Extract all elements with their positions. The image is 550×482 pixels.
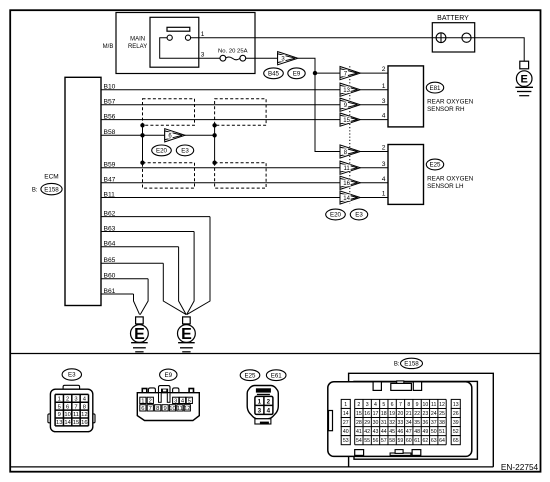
svg-text:No. 20 25A: No. 20 25A [218, 48, 248, 54]
wire B61 down to ground [134, 294, 140, 315]
svg-text:9: 9 [58, 412, 61, 418]
connector oval E81 [426, 82, 443, 93]
wire pin1 relay to battery [191, 37, 475, 39]
connector E158 side slot [329, 411, 333, 431]
svg-text:B10: B10 [104, 84, 116, 91]
connector E3 body [48, 385, 95, 431]
svg-text:E81: E81 [429, 85, 441, 92]
shield box B59-B47 left [143, 163, 195, 188]
connector E25-E61 pin grid [255, 396, 273, 414]
connector oval E3 mid [176, 145, 193, 156]
label REAR OXYGEN SENSOR LH [427, 175, 474, 190]
relay internal wire to pin 3 [160, 38, 220, 59]
wire B10 connector to sensor [361, 89, 389, 91]
shield box B59-B47 right [215, 163, 267, 188]
svg-text:31: 31 [381, 420, 387, 426]
rear oxygen sensor LH box [388, 145, 424, 205]
svg-text:8: 8 [156, 406, 159, 412]
svg-text:49: 49 [423, 429, 429, 435]
svg-text:2: 2 [149, 399, 152, 405]
svg-text:13: 13 [56, 420, 62, 426]
connector E158 top tabs [373, 381, 421, 391]
svg-text:13: 13 [343, 88, 350, 94]
svg-text:34: 34 [406, 420, 412, 426]
wire B65 down to ground [163, 263, 186, 314]
svg-text:54: 54 [356, 438, 362, 444]
svg-text:55: 55 [364, 438, 370, 444]
connector oval E158 ECM [41, 183, 62, 194]
shield box B57-B56 left [143, 99, 195, 126]
svg-text:40: 40 [343, 429, 349, 435]
svg-text:B47: B47 [104, 177, 116, 184]
ground E right [178, 317, 196, 352]
svg-text:62: 62 [423, 438, 429, 444]
connector E158 pin grid [341, 399, 460, 444]
svg-text:22: 22 [414, 411, 420, 417]
svg-text:E158: E158 [404, 361, 419, 368]
connector E158 body [328, 382, 472, 457]
svg-text:12: 12 [184, 406, 190, 412]
svg-text:1: 1 [141, 399, 144, 405]
battery minus terminal [462, 33, 471, 42]
connector E158 inner plate [354, 381, 477, 459]
connector section shelf line [11, 466, 494, 468]
connector arrow 6 E20-E3 [165, 129, 185, 142]
wire B47 [101, 182, 388, 184]
connector arrow 11 [340, 161, 360, 174]
label MAIN RELAY [128, 37, 147, 50]
battery plus terminal [436, 33, 446, 43]
connector arrow 3 B45-E9 [278, 52, 298, 65]
svg-text:4: 4 [267, 407, 271, 414]
connector E158 outer plate [349, 373, 494, 467]
svg-text:E25: E25 [429, 162, 441, 169]
shield drain wire left [142, 125, 144, 162]
svg-text:7: 7 [74, 404, 77, 410]
svg-text:56: 56 [373, 438, 379, 444]
main relay box [150, 17, 199, 67]
svg-text:41: 41 [356, 429, 362, 435]
svg-text:9: 9 [416, 402, 419, 408]
svg-text:25: 25 [439, 411, 445, 417]
svg-text:50: 50 [431, 429, 437, 435]
connector E9 body [137, 386, 199, 421]
connector E9 pins [140, 397, 193, 412]
connector arrow 7 [340, 67, 360, 80]
shield drain wire right [214, 125, 216, 162]
svg-text:B58: B58 [104, 129, 116, 136]
svg-text:E20: E20 [330, 212, 342, 219]
junction B58 left [140, 133, 144, 137]
wire B62 [101, 216, 210, 218]
svg-text:6: 6 [66, 404, 69, 410]
connector oval E158 view [401, 358, 423, 368]
svg-text:EN-22754: EN-22754 [501, 462, 539, 472]
svg-text:8: 8 [407, 402, 410, 408]
svg-text:9: 9 [163, 406, 166, 412]
svg-text:37: 37 [431, 420, 437, 426]
svg-text:53: 53 [343, 438, 349, 444]
svg-text:65: 65 [453, 438, 459, 444]
label REAR OXYGEN SENSOR RH [427, 98, 474, 113]
svg-text:E: E [181, 326, 192, 343]
svg-text:3: 3 [366, 402, 369, 408]
svg-text:64: 64 [439, 438, 445, 444]
wire B64 [101, 246, 179, 248]
relay contact right [185, 35, 190, 40]
svg-text:B63: B63 [104, 225, 116, 232]
svg-text:7: 7 [149, 406, 152, 412]
svg-text:2: 2 [382, 66, 386, 73]
connector arrow 16 [340, 176, 360, 189]
svg-text:SENSOR RH: SENSOR RH [427, 106, 465, 113]
svg-text:36: 36 [423, 420, 429, 426]
svg-text:27: 27 [343, 420, 349, 426]
svg-text:B57: B57 [104, 99, 116, 106]
wire B64 down to ground [179, 247, 187, 315]
svg-text:4: 4 [382, 176, 386, 183]
svg-text:3: 3 [258, 407, 262, 414]
svg-text:3: 3 [382, 161, 386, 168]
svg-text:M/B: M/B [103, 44, 114, 50]
wire B63 [101, 231, 194, 233]
svg-text:B45: B45 [268, 71, 280, 78]
connector boundary dotted line [349, 66, 351, 204]
connector oval E20 mid [152, 145, 172, 156]
svg-text:SENSOR LH: SENSOR LH [427, 183, 464, 190]
svg-text:2: 2 [357, 402, 360, 408]
svg-text:B60: B60 [104, 273, 116, 280]
svg-text:REAR OXYGEN: REAR OXYGEN [427, 175, 474, 182]
svg-text:2: 2 [382, 145, 386, 152]
connector E25-E61 body [247, 386, 278, 425]
svg-text:3: 3 [382, 98, 386, 105]
wire B62 down to ground [187, 217, 210, 315]
svg-text:REAR OXYGEN: REAR OXYGEN [427, 98, 474, 105]
svg-text:3: 3 [201, 51, 205, 58]
junction shield left top [140, 123, 144, 127]
wire B60 down to ground [140, 279, 148, 315]
wire B56 [101, 119, 340, 121]
wire B10 [101, 89, 340, 91]
svg-text:24: 24 [431, 411, 437, 417]
svg-text:61: 61 [414, 438, 420, 444]
connector oval E61 view [266, 370, 286, 381]
svg-text:15: 15 [73, 420, 79, 426]
svg-text:16: 16 [364, 411, 370, 417]
svg-text:RELAY: RELAY [128, 44, 147, 50]
junction B58 right [212, 133, 216, 137]
wire fuse to connector 3 [246, 57, 278, 59]
connector oval E9 top [288, 68, 305, 79]
svg-text:8: 8 [83, 404, 86, 410]
svg-text:58: 58 [389, 438, 395, 444]
connector E3 pin grid [55, 394, 88, 426]
svg-text:21: 21 [406, 411, 412, 417]
connector arrow 15 [340, 113, 360, 126]
svg-text:30: 30 [373, 420, 379, 426]
svg-text:MAIN: MAIN [130, 37, 145, 43]
svg-text:E3: E3 [68, 372, 76, 379]
svg-text:26: 26 [453, 411, 459, 417]
svg-text:23: 23 [423, 411, 429, 417]
svg-text:19: 19 [389, 411, 395, 417]
fuse No. 20 25A [220, 55, 246, 61]
svg-text:16: 16 [81, 420, 87, 426]
connector arrow 13 [340, 83, 360, 96]
svg-text:B62: B62 [104, 210, 116, 217]
svg-text:18: 18 [381, 411, 387, 417]
connector oval B45 [264, 68, 284, 79]
svg-text:38: 38 [439, 420, 445, 426]
svg-text:29: 29 [364, 420, 370, 426]
svg-text:B65: B65 [104, 257, 116, 264]
svg-text:45: 45 [389, 429, 395, 435]
svg-text:14: 14 [64, 420, 71, 426]
connector oval E3 view [62, 369, 81, 380]
wire B57 connector to sensor [361, 104, 389, 106]
svg-text:20: 20 [398, 411, 404, 417]
svg-text:7: 7 [399, 402, 402, 408]
svg-text:14: 14 [343, 196, 350, 202]
connector arrow 9 [340, 98, 360, 111]
svg-text:5: 5 [382, 402, 385, 408]
ECM box [65, 77, 101, 305]
svg-text:5: 5 [188, 399, 191, 405]
svg-text:59: 59 [398, 438, 404, 444]
connector arrow 8 [340, 145, 360, 158]
svg-text:1: 1 [382, 191, 386, 198]
svg-text:B:: B: [394, 362, 400, 368]
svg-text:BATTERY: BATTERY [437, 15, 469, 22]
section divider line [11, 353, 540, 355]
svg-text:E9: E9 [293, 71, 301, 78]
svg-text:16: 16 [343, 181, 350, 187]
svg-text:46: 46 [398, 429, 404, 435]
wire B56 connector to sensor [361, 119, 389, 121]
junction shield right top [212, 123, 216, 127]
svg-text:5: 5 [58, 404, 61, 410]
svg-text:14: 14 [343, 411, 349, 417]
svg-text:4: 4 [382, 113, 386, 120]
svg-text:15: 15 [343, 118, 350, 124]
relay coil [167, 27, 190, 31]
wire B58 [101, 134, 215, 136]
svg-text:B:: B: [32, 187, 38, 193]
svg-text:1: 1 [382, 83, 386, 90]
svg-text:33: 33 [398, 420, 404, 426]
svg-text:3: 3 [74, 396, 77, 402]
svg-text:47: 47 [406, 429, 412, 435]
svg-text:12: 12 [81, 412, 87, 418]
svg-text:6: 6 [141, 406, 144, 412]
svg-text:42: 42 [364, 429, 370, 435]
wire arrow3 to junction and down to sensors [298, 58, 388, 151]
svg-text:B59: B59 [104, 162, 116, 169]
connector arrow 14 [340, 191, 360, 204]
svg-text:ECM: ECM [44, 174, 58, 181]
wire B59 [101, 167, 388, 169]
svg-text:1: 1 [201, 31, 205, 38]
connector oval E9 view [160, 369, 177, 380]
svg-text:E158: E158 [44, 186, 59, 193]
svg-text:6: 6 [391, 402, 394, 408]
svg-text:E25: E25 [244, 372, 256, 379]
connector oval E25 view [240, 370, 260, 381]
connector oval E20 bottom [326, 209, 346, 220]
svg-text:B56: B56 [104, 113, 116, 120]
svg-text:E: E [134, 326, 145, 343]
svg-text:E61: E61 [271, 372, 283, 379]
junction node supply [313, 71, 317, 75]
svg-text:E3: E3 [181, 148, 189, 155]
connector E158 bottom tabs [355, 450, 421, 456]
wire B61 [101, 293, 134, 295]
svg-text:28: 28 [356, 420, 362, 426]
svg-text:3: 3 [174, 399, 177, 405]
svg-text:39: 39 [453, 420, 459, 426]
svg-text:B11: B11 [104, 191, 116, 198]
svg-text:63: 63 [431, 438, 437, 444]
svg-text:43: 43 [373, 429, 379, 435]
wire B65 [101, 262, 163, 264]
junction shield right bottom [212, 161, 216, 165]
svg-text:E9: E9 [165, 372, 173, 379]
svg-text:13: 13 [453, 402, 459, 408]
svg-text:2: 2 [267, 398, 271, 405]
fuse box M/B outline [116, 13, 255, 74]
svg-text:60: 60 [406, 438, 412, 444]
svg-text:11: 11 [73, 412, 79, 418]
connector oval E3 bottom [350, 209, 367, 220]
wire battery to ground [475, 38, 525, 62]
battery box [432, 23, 474, 52]
svg-text:1: 1 [58, 396, 61, 402]
svg-text:17: 17 [373, 411, 379, 417]
svg-text:1: 1 [258, 398, 262, 405]
ground E battery [515, 61, 533, 95]
svg-text:1: 1 [344, 402, 347, 408]
svg-text:10: 10 [423, 402, 429, 408]
svg-text:32: 32 [389, 420, 395, 426]
relay contact left [167, 35, 172, 40]
svg-text:10: 10 [169, 406, 175, 412]
svg-text:E: E [521, 74, 528, 86]
ground E left [131, 317, 149, 352]
wire B63 down to ground [187, 232, 195, 315]
svg-text:10: 10 [64, 412, 70, 418]
svg-text:B64: B64 [104, 241, 116, 248]
rear oxygen sensor RH box [388, 66, 424, 127]
svg-text:2: 2 [66, 396, 69, 402]
svg-text:44: 44 [381, 429, 387, 435]
svg-text:11: 11 [177, 406, 183, 412]
connector oval E25 sensor [426, 159, 443, 170]
svg-text:12: 12 [439, 402, 445, 408]
shield box B57-B56 right [215, 99, 267, 126]
svg-text:48: 48 [414, 429, 420, 435]
svg-text:11: 11 [431, 402, 436, 408]
svg-text:15: 15 [356, 411, 362, 417]
svg-text:35: 35 [414, 420, 420, 426]
wire B60 [101, 278, 148, 280]
svg-text:4: 4 [374, 402, 377, 408]
svg-text:51: 51 [439, 429, 445, 435]
wire B57 [101, 104, 340, 106]
junction shield left bottom [140, 161, 144, 165]
svg-text:B61: B61 [104, 288, 116, 295]
svg-text:11: 11 [343, 166, 350, 172]
svg-text:57: 57 [381, 438, 387, 444]
wire junction to rear O2 RH pin2 [315, 72, 388, 74]
svg-text:E3: E3 [355, 212, 363, 219]
svg-text:E20: E20 [156, 148, 168, 155]
svg-text:52: 52 [453, 429, 459, 435]
wire B11 [101, 197, 388, 199]
